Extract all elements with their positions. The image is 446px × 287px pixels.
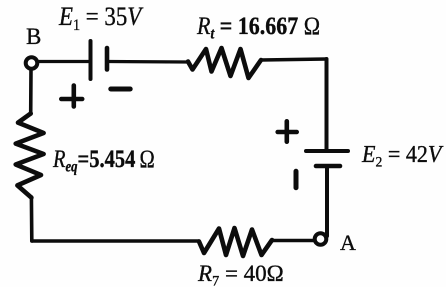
battery E1 short plate — [105, 48, 110, 70]
label E1 = 35V — [59, 4, 141, 30]
left vertical wire upper — [29, 69, 33, 114]
node B — [26, 57, 38, 69]
wire Rt to top-right corner — [261, 59, 327, 60]
label Req = 5.454 ohm — [53, 147, 155, 172]
minus sign E1 — [111, 87, 130, 92]
resistor Req zigzag — [16, 114, 44, 198]
wire B to E1 — [38, 60, 89, 63]
resistor Rt zigzag — [188, 48, 261, 78]
right vertical wire — [325, 59, 329, 151]
bottom wire R7 to corner — [32, 239, 199, 242]
wire E1 to Rt — [109, 60, 188, 64]
wire A to R7 — [272, 239, 313, 242]
label E2 = 42V — [362, 143, 441, 167]
battery E1 long plate — [89, 41, 93, 79]
battery E2 short plate — [316, 164, 340, 169]
label node B — [26, 25, 41, 48]
left vertical wire lower — [30, 197, 34, 241]
wire E2 to node A — [325, 166, 329, 236]
minus sign E2 — [294, 171, 299, 187]
node A — [315, 233, 327, 245]
label Rt = 16.667 ohm — [197, 14, 320, 39]
label node A — [340, 232, 356, 254]
label R7 = 40 ohm — [198, 262, 284, 285]
resistor R7 zigzag — [199, 228, 272, 256]
battery E2 long plate — [306, 149, 348, 153]
plus sign E1 — [61, 86, 82, 107]
plus sign E2 — [278, 121, 297, 141]
